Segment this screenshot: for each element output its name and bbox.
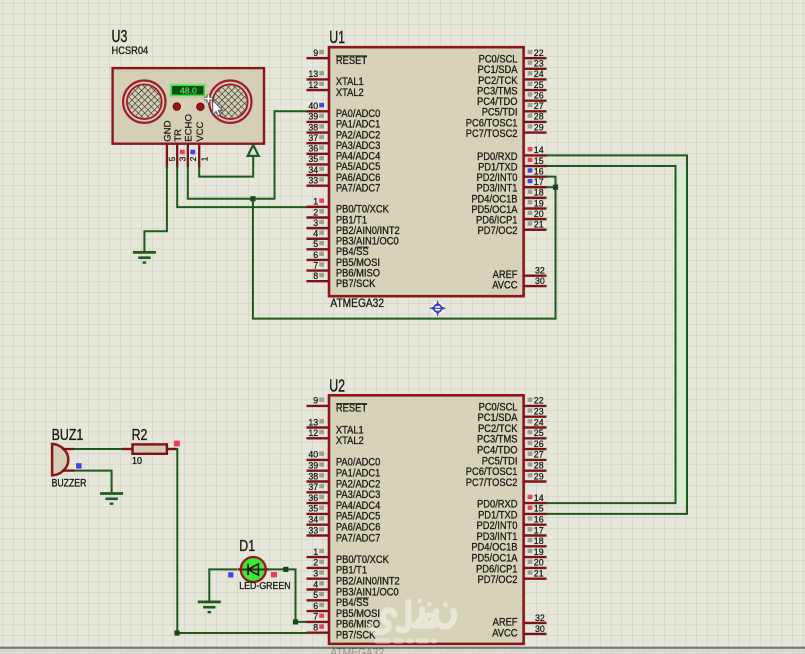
watermark Arabic logo — [371, 599, 454, 632]
svg-text:7: 7 — [313, 612, 318, 622]
svg-text:39: 39 — [308, 112, 318, 122]
svg-text:10: 10 — [132, 455, 143, 467]
node junction at U1 pin17 wire — [553, 185, 558, 190]
svg-text:12: 12 — [308, 428, 318, 438]
svg-text:25: 25 — [534, 80, 544, 90]
node junction on ECHO wire — [250, 196, 255, 201]
U1 AREF pin 32 and AVCC pin 30 — [492, 266, 546, 292]
svg-text:15: 15 — [534, 504, 544, 514]
wire stub U1 pin17 to vertical — [546, 186, 556, 188]
node junction at U2 pin7 — [293, 619, 298, 624]
svg-text:PD7/OC2: PD7/OC2 — [478, 226, 518, 238]
svg-text:40: 40 — [308, 450, 318, 460]
indicator LED dot right on U3 — [197, 103, 204, 110]
svg-text:AVCC: AVCC — [492, 628, 517, 640]
svg-text:28: 28 — [534, 461, 544, 471]
U2 AREF pin 32 and AVCC pin 30 — [492, 613, 546, 640]
svg-text:22: 22 — [534, 396, 544, 406]
resistor R2 leads — [122, 448, 177, 450]
node junction at R2 wire corner — [174, 630, 179, 635]
svg-text:R2: R2 — [132, 427, 148, 445]
svg-text:3: 3 — [177, 156, 187, 161]
svg-text:33: 33 — [308, 175, 318, 185]
label U3 — [112, 27, 128, 46]
svg-text:26: 26 — [534, 90, 544, 100]
svg-text:48.0: 48.0 — [180, 86, 197, 96]
svg-text:LED-GREEN: LED-GREEN — [239, 581, 290, 593]
svg-text:28: 28 — [534, 112, 544, 122]
svg-text:20: 20 — [534, 209, 544, 219]
svg-text:16: 16 — [534, 166, 544, 176]
svg-text:4: 4 — [313, 229, 318, 239]
svg-text:32: 32 — [535, 266, 545, 276]
svg-text:8: 8 — [313, 271, 318, 281]
wire U3.GND down to ground — [144, 166, 167, 252]
svg-text:17: 17 — [534, 177, 544, 187]
svg-text:3: 3 — [313, 218, 318, 228]
svg-text:7: 7 — [313, 260, 318, 270]
svg-text:32: 32 — [535, 613, 545, 623]
svg-text:34: 34 — [308, 165, 318, 175]
svg-text:PA7/ADC7: PA7/ADC7 — [336, 183, 381, 195]
U1 left pin stubs with pin numbers 9,13,12,40-33,1-8 and state squares — [307, 48, 330, 281]
svg-text:XTAL2: XTAL2 — [336, 436, 364, 448]
svg-text:ATMEGA32: ATMEGA32 — [330, 297, 384, 310]
svg-text:38: 38 — [308, 471, 318, 481]
wire R2 to U2 pin8 PB7 — [177, 449, 307, 633]
svg-text:U2: U2 — [329, 377, 345, 396]
pin state square U3 pin 2 — [190, 150, 195, 155]
svg-text:XTAL2: XTAL2 — [336, 87, 364, 99]
svg-text:RESET: RESET — [336, 55, 367, 67]
svg-text:35: 35 — [308, 154, 318, 164]
svg-text:37: 37 — [308, 482, 318, 492]
svg-text:PB7/SCK: PB7/SCK — [336, 630, 376, 642]
U2 left pin name labels RESET XTAL PA PB — [336, 403, 400, 642]
svg-text:1: 1 — [313, 547, 318, 557]
svg-text:17: 17 — [534, 525, 544, 535]
mouse arrow pointer — [213, 100, 223, 116]
svg-text:37: 37 — [308, 133, 318, 143]
svg-text:24: 24 — [534, 69, 544, 79]
svg-text:30: 30 — [535, 276, 545, 286]
svg-text:36: 36 — [308, 493, 318, 503]
svg-text:16: 16 — [534, 515, 544, 525]
svg-text:15: 15 — [534, 156, 544, 166]
svg-text:30: 30 — [535, 624, 545, 634]
svg-text:14: 14 — [534, 493, 544, 503]
svg-text:18: 18 — [534, 536, 544, 546]
wire U3.VCC to power terminal — [199, 156, 253, 176]
display 48.0 on U3 — [170, 84, 206, 97]
svg-text:20: 20 — [534, 558, 544, 568]
svg-text:22: 22 — [534, 48, 544, 58]
svg-text:39: 39 — [308, 461, 318, 471]
mouse crosshair cursor — [204, 94, 212, 102]
svg-text:13: 13 — [308, 417, 318, 427]
svg-text:U3: U3 — [112, 27, 128, 46]
pin state square D1 left pin — [228, 572, 233, 577]
U1 left pin name labels RESET XTAL PA PB — [336, 55, 400, 290]
label 10 (R2 value) — [132, 455, 143, 467]
svg-text:21: 21 — [534, 220, 544, 230]
svg-text:U1: U1 — [329, 28, 345, 47]
U1 right PD port pins 14-21 with names — [471, 145, 546, 237]
label D1 — [239, 538, 255, 556]
buzzer pin stubs — [62, 449, 75, 471]
transducer left (crosshatched) — [123, 81, 165, 123]
svg-text:21: 21 — [534, 569, 544, 579]
svg-text:19: 19 — [534, 547, 544, 557]
svg-text:BUZZER: BUZZER — [52, 478, 87, 490]
svg-text:29: 29 — [534, 471, 544, 481]
svg-text:29: 29 — [534, 122, 544, 132]
label U2 (reference designator) — [329, 377, 345, 396]
origin marker (blue compass icon) — [430, 300, 446, 317]
wire BUZ1 bottom pin to ground — [75, 471, 112, 494]
svg-text:PC7/TOSC2: PC7/TOSC2 — [466, 477, 518, 489]
svg-text:13: 13 — [308, 69, 318, 79]
svg-text:AVCC: AVCC — [492, 280, 517, 292]
label ATMEGA32 value of U1 — [330, 297, 384, 310]
wire U3.ECHO to U1 pin40 PA0 — [188, 111, 307, 199]
wire U1 pin14 RXD to U2 pin15 TXD — [547, 155, 688, 514]
svg-text:PA7/ADC7: PA7/ADC7 — [336, 533, 381, 545]
svg-text:40: 40 — [308, 101, 318, 111]
U2 left pin stubs with pin numbers 9,13,12,40-33,1-8 and state squares — [307, 396, 330, 633]
U1 right PC port pins 22-29 with names — [466, 48, 547, 140]
video bottom border — [0, 647, 805, 654]
svg-text:9: 9 — [313, 396, 318, 406]
svg-text:2: 2 — [313, 207, 318, 217]
node junction on D1 wire — [283, 567, 288, 572]
pin state square U3 pin 3 — [180, 150, 185, 155]
wire D1 left to ground — [209, 569, 237, 602]
svg-text:23: 23 — [534, 59, 544, 69]
svg-text:PD7/OC2: PD7/OC2 — [478, 575, 518, 587]
wire D1 right to U2 pin7 PB6 — [269, 569, 307, 622]
svg-text:ECHO: ECHO — [183, 114, 194, 142]
svg-text:14: 14 — [534, 145, 544, 155]
svg-text:35: 35 — [308, 504, 318, 514]
svg-text:VCC: VCC — [195, 121, 206, 141]
pin state square R2 right pin — [174, 441, 180, 447]
watermark subtitle line — [374, 638, 437, 644]
U2 right PD port pins 14-21 with names — [471, 493, 546, 586]
svg-text:18: 18 — [534, 188, 544, 198]
svg-text:5: 5 — [313, 590, 318, 600]
wire ECHO junction to U1 pins 16,17 (INT0/INT1) — [253, 177, 556, 319]
svg-text:6: 6 — [313, 250, 318, 260]
ground symbol below D1 — [198, 602, 221, 612]
svg-text:1: 1 — [199, 156, 209, 161]
svg-text:36: 36 — [308, 144, 318, 154]
svg-text:24: 24 — [534, 417, 544, 427]
pin state square D1 right pin — [271, 572, 277, 577]
buzzer BUZ1 body — [52, 444, 68, 476]
ground symbol below U3 — [133, 252, 156, 262]
svg-text:26: 26 — [534, 439, 544, 449]
resistor R2 body — [133, 444, 167, 453]
label R2 — [132, 427, 148, 445]
svg-text:8: 8 — [313, 623, 318, 633]
svg-text:4: 4 — [313, 579, 318, 589]
svg-text:5: 5 — [167, 156, 177, 161]
label BUZZER — [52, 478, 87, 490]
led D1 body — [238, 557, 269, 582]
chip U2 ATMEGA32 body — [329, 395, 524, 644]
svg-text:PC7/TOSC2: PC7/TOSC2 — [466, 128, 518, 140]
svg-text:6: 6 — [313, 601, 318, 611]
wire U3.TR to U1 pin1 PB0 — [177, 166, 306, 207]
transducer right (crosshatched) — [209, 81, 251, 123]
label LED-GREEN — [239, 581, 290, 593]
svg-text:2: 2 — [313, 558, 318, 568]
label ATMEGA32 value of U2 — [330, 647, 384, 654]
svg-text:TR: TR — [173, 129, 184, 142]
ground symbol below BUZ1 — [100, 494, 123, 504]
svg-text:9: 9 — [313, 48, 318, 58]
svg-text:BUZ1: BUZ1 — [52, 426, 84, 444]
U3 pins GND TR ECHO VCC (stubs, rotated labels, pin numbers 5 3 2 1) — [163, 114, 210, 168]
svg-text:PB7/SCK: PB7/SCK — [336, 278, 376, 290]
pin state square BUZ1 bottom pin — [76, 463, 81, 468]
power terminal arrow (VCC) — [248, 145, 259, 156]
U2 right PC port pins 22-29 with names — [466, 396, 547, 489]
label HCSR04 — [112, 46, 149, 58]
svg-text:HCSR04: HCSR04 — [112, 46, 149, 58]
svg-text:27: 27 — [534, 101, 544, 111]
svg-text:27: 27 — [534, 450, 544, 460]
svg-text:33: 33 — [308, 525, 318, 535]
svg-text:23: 23 — [534, 407, 544, 417]
svg-text:34: 34 — [308, 515, 318, 525]
svg-text:1: 1 — [313, 197, 318, 207]
indicator LED dot left on U3 — [173, 103, 180, 110]
svg-text:D1: D1 — [239, 538, 255, 556]
svg-text:12: 12 — [308, 80, 318, 90]
wire U1 pin15 TXD to U2 pin14 RXD — [547, 166, 676, 503]
label BUZ1 — [52, 426, 84, 444]
svg-text:2: 2 — [188, 156, 198, 161]
label U1 (reference designator) — [329, 28, 345, 47]
svg-text:19: 19 — [534, 198, 544, 208]
svg-text:25: 25 — [534, 428, 544, 438]
svg-text:38: 38 — [308, 122, 318, 132]
chip U1 ATMEGA32 body — [329, 47, 524, 296]
svg-text:RESET: RESET — [336, 403, 367, 415]
transducer module U3 HCSR04 body — [113, 68, 264, 144]
svg-text:5: 5 — [313, 239, 318, 249]
highlight between serial wires — [677, 167, 686, 504]
svg-text:3: 3 — [313, 569, 318, 579]
wire BUZ1 top pin to R2 — [75, 448, 123, 450]
